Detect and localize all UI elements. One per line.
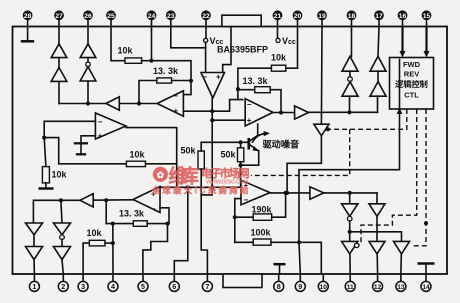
- node L1 feedback tap: [137, 101, 141, 105]
- svg-text:10: 10: [320, 284, 328, 291]
- wire A1 feedback staircase: [44, 138, 126, 164]
- svg-text:12: 12: [374, 284, 382, 291]
- wire 10k to pin24 node: [142, 60, 152, 62]
- node dashed at G19: [326, 127, 330, 131]
- Vcc tap pin 21: [276, 27, 296, 47]
- buffer B0 (drives pin26/27 chains): [106, 97, 119, 110]
- svg-text:3: 3: [81, 282, 85, 291]
- inverter chain pin 2: [54, 223, 71, 274]
- pin 24: [147, 10, 157, 26]
- svg-text:16: 16: [399, 13, 407, 20]
- arrow pin 15 into box: [424, 27, 430, 58]
- jumper rectangle top between pin 22 and 21: [222, 15, 261, 26]
- wire down to minus stub: [183, 81, 191, 95]
- svg-text:6: 6: [172, 282, 176, 291]
- resistor 10k (pin25 input): [118, 46, 142, 64]
- node U1 out / D2 plus: [210, 118, 214, 122]
- node on dashed line: [424, 221, 428, 225]
- resistor 10k (pin 3): [87, 228, 106, 246]
- resistor 100k: [251, 228, 272, 246]
- pin 22: [201, 10, 211, 26]
- inverter chain pin 18: [342, 27, 358, 113]
- wire pin 6 riser: [174, 187, 188, 274]
- node 13.3k feedback right: [189, 79, 193, 83]
- wire 190k left: [235, 216, 253, 218]
- wire 13.3k right end: [172, 80, 191, 82]
- svg-text:+: +: [174, 107, 179, 116]
- jumper rectangle bottom between pin 7 and 8: [223, 274, 262, 288]
- svg-text:✿: ✿: [157, 170, 165, 180]
- ground pin 14: [418, 264, 435, 275]
- buffer D (points left): [80, 194, 93, 207]
- arrowhead into box bottom: [397, 108, 403, 114]
- wire pin 4 riser: [112, 224, 114, 274]
- ground under 10k: [38, 183, 53, 189]
- svg-text:10k: 10k: [130, 150, 146, 160]
- arrow pin 16 into box: [400, 27, 406, 58]
- wire pin 19 riser: [320, 27, 323, 125]
- pin 18: [347, 10, 357, 26]
- wire 13.3k right to C minus: [147, 223, 167, 225]
- wire A1 output: [126, 128, 177, 164]
- node H1 mid tap: [348, 230, 352, 234]
- pin 27: [54, 10, 64, 26]
- wire chains to buffer: [59, 103, 106, 105]
- svg-text:13: 13: [397, 284, 405, 291]
- wire L1 plus to main node: [183, 110, 212, 112]
- pin 16: [398, 10, 408, 26]
- op-amp E: [241, 180, 270, 205]
- wire F0 output to driver chains: [309, 111, 378, 113]
- pin 1: [29, 274, 39, 291]
- resistor 13.3k (D2 feedback): [243, 76, 271, 93]
- node pin 9 tie: [297, 240, 301, 244]
- svg-text:11: 11: [347, 284, 354, 291]
- svg-text:28: 28: [24, 13, 32, 20]
- svg-text:驱动噪音: 驱动噪音: [263, 139, 300, 150]
- wire H3 node to H5: [350, 232, 402, 242]
- svg-text:100k: 100k: [251, 228, 272, 238]
- transistor Q1: [249, 124, 259, 165]
- svg-text:27: 27: [55, 13, 63, 20]
- wire 190k right to E output: [272, 193, 286, 217]
- pin 23: [166, 10, 176, 26]
- pin 2: [58, 274, 68, 291]
- pin 15: [422, 10, 432, 26]
- resistor 50k right: [221, 148, 244, 162]
- wire 10k left to feedback node: [238, 68, 272, 89]
- wire Vcc to U1 minus: [205, 43, 207, 73]
- wire node to L1 minus input: [152, 61, 192, 81]
- buffer chain pin 27: [51, 27, 67, 104]
- node A1 minus: [42, 136, 46, 140]
- pin 4: [108, 274, 118, 291]
- svg-text:19: 19: [318, 13, 326, 20]
- resistor 10k (to pin 20): [271, 53, 287, 72]
- svg-text:10k: 10k: [52, 170, 68, 180]
- svg-text:CTL: CTL: [404, 91, 419, 100]
- wire U1 plus riser to top jumper: [223, 27, 231, 73]
- svg-text:20: 20: [294, 13, 302, 20]
- ground under pin 28: [21, 27, 34, 42]
- svg-text:26: 26: [84, 13, 92, 20]
- wire 50k right top: [240, 142, 242, 148]
- svg-text:WWW.DZSC.COM: WWW.DZSC.COM: [206, 180, 248, 186]
- wire pin 5 staircase: [143, 224, 168, 274]
- pin 13: [396, 274, 406, 291]
- wire node to 10k: [44, 138, 46, 167]
- wire 50k left bottom: [200, 169, 202, 195]
- op-amp C (points left): [133, 187, 160, 214]
- svg-text:−: −: [98, 118, 103, 127]
- resistor 13.3k (L1 feedback): [153, 66, 179, 83]
- wire feedback line: [106, 223, 133, 225]
- dashed control to G19: [328, 109, 407, 129]
- wire node down to minus line: [237, 89, 239, 100]
- ground pin 8: [274, 264, 286, 274]
- wire C output down to feedback: [105, 200, 107, 223]
- wire 50k left top: [200, 142, 202, 151]
- pin 20: [293, 10, 303, 26]
- ground cap at A1 plus: [74, 136, 96, 155]
- pin 11: [345, 274, 355, 291]
- wire A1 minus: [44, 121, 95, 137]
- wire 10k right to pin 20: [286, 27, 298, 69]
- buffer F: [310, 187, 324, 200]
- buffer F0: [295, 106, 309, 119]
- svg-text:13. 3k: 13. 3k: [153, 66, 179, 76]
- node E out / 190k tap: [284, 191, 288, 195]
- wire bias line (C+ to E+): [160, 186, 241, 188]
- svg-text:BA6395BFP: BA6395BFP: [217, 45, 268, 55]
- pin 25: [106, 10, 116, 26]
- driver H5 (pin 13): [394, 241, 410, 274]
- dashed control to H5: [411, 109, 426, 246]
- wire emitter tie: [241, 164, 259, 166]
- node G19 tie: [285, 191, 289, 195]
- svg-text:25: 25: [107, 13, 115, 20]
- wire pin 9 riser: [299, 242, 300, 274]
- pin 14: [421, 274, 431, 291]
- svg-text:50k: 50k: [221, 150, 237, 160]
- svg-text:−: −: [174, 92, 179, 101]
- svg-text:REV: REV: [404, 70, 419, 79]
- wire 100k left: [235, 241, 253, 243]
- svg-text:+: +: [98, 132, 103, 141]
- svg-text:4: 4: [111, 282, 115, 291]
- pin 10: [318, 274, 328, 291]
- svg-text:维库: 维库: [169, 165, 200, 188]
- dashed branch to op-amp E area: [251, 129, 350, 175]
- pin 9: [295, 274, 305, 291]
- node pin 4 tap: [111, 222, 115, 226]
- svg-text:14: 14: [422, 284, 430, 291]
- resistor 190k: [252, 205, 273, 221]
- pin 17: [374, 10, 384, 26]
- svg-text:24: 24: [148, 13, 156, 20]
- node D2 output feedback tap: [279, 110, 283, 114]
- svg-text:9: 9: [298, 282, 302, 291]
- pin 21: [273, 10, 283, 26]
- svg-text:22: 22: [202, 13, 210, 20]
- wire B0 input from op-amp L1 output: [119, 103, 157, 105]
- wire 50k top rail: [201, 141, 248, 143]
- wire 13.3k right down to D2 output: [270, 90, 281, 113]
- svg-text:190k: 190k: [252, 205, 273, 215]
- pin 7: [202, 274, 212, 291]
- op-amp D2: [245, 99, 273, 126]
- wire 13.3k left: [238, 89, 255, 91]
- node U1 out / L1 plus: [210, 109, 214, 113]
- wire C output: [80, 199, 133, 202]
- resistor 10k vertical: [42, 167, 67, 183]
- pin 28: [23, 10, 33, 26]
- op-amp A1: [95, 113, 126, 141]
- svg-text:−: −: [203, 73, 208, 82]
- svg-text:17: 17: [375, 13, 383, 20]
- annotation arrow drive noise: [253, 131, 271, 142]
- resistor 13.3k C feedback: [119, 209, 147, 227]
- op-amp U1 (points down): [201, 73, 225, 99]
- node pin24/10k junction: [149, 59, 153, 63]
- inverter chain H1/H3 (pin 11): [342, 193, 359, 274]
- svg-text:21: 21: [274, 13, 282, 20]
- buffer chain pin 17: [370, 27, 386, 113]
- svg-text:13. 3k: 13. 3k: [243, 76, 269, 86]
- resistor 50k left: [181, 146, 205, 170]
- wire 13.3k left end to output node: [139, 81, 157, 104]
- wire 10k to A1 output riser: [146, 164, 177, 188]
- wire pin 3 to 10k: [83, 243, 89, 274]
- wire G19 output to E output node: [287, 136, 321, 193]
- pin 6: [169, 274, 179, 291]
- pin 5: [138, 274, 148, 291]
- svg-text:18: 18: [348, 13, 356, 20]
- wire 100k right to pins 9/10: [271, 242, 321, 274]
- svg-text:−: −: [151, 205, 156, 214]
- wire staircase to D2 minus: [212, 100, 243, 112]
- svg-text:1: 1: [32, 282, 36, 291]
- svg-text:5: 5: [141, 282, 145, 291]
- buffer G19 (points down): [314, 124, 329, 136]
- svg-text:+: +: [247, 116, 252, 125]
- inverter chain pin 26: [80, 27, 96, 104]
- pin 3: [78, 274, 88, 291]
- node pin3 10k right: [111, 241, 115, 245]
- wire pin9 node to logic box (arrow up): [299, 60, 400, 243]
- pin 12: [373, 274, 383, 291]
- svg-text:FWD: FWD: [403, 60, 421, 69]
- wire bias to pin 7: [201, 187, 212, 274]
- svg-text:全球最大IC采购网站: 全球最大IC采购网站: [151, 185, 248, 195]
- wire D2 plus input: [212, 119, 245, 121]
- pin 19: [317, 10, 327, 26]
- wire pin 24 stub: [151, 27, 153, 61]
- node junction chains: [86, 101, 90, 105]
- svg-text:8: 8: [277, 282, 281, 291]
- buffer chain H2/H4 (pin 12): [369, 193, 385, 274]
- svg-text:Vcc: Vcc: [282, 36, 296, 46]
- wire D2 output: [273, 112, 295, 114]
- resistor 10k A1 feedback: [126, 150, 145, 167]
- wire chain pin2 riser: [61, 200, 62, 223]
- wire pin 25 to 10k: [111, 27, 125, 61]
- wire 10k right to pin4 riser: [105, 242, 113, 244]
- wire F output to driver chains: [324, 192, 377, 194]
- svg-text:50k: 50k: [181, 146, 197, 156]
- pin 8: [274, 274, 284, 291]
- svg-text:7: 7: [205, 282, 209, 291]
- node bias line / U1 output: [210, 185, 214, 189]
- svg-text:10k: 10k: [87, 228, 103, 238]
- wire 50k right bottom to bias: [240, 162, 242, 188]
- watermark: [151, 165, 250, 196]
- svg-text:−: −: [247, 100, 252, 109]
- svg-text:13. 3k: 13. 3k: [119, 209, 145, 219]
- node chain18 tap: [347, 110, 351, 114]
- pin 26: [83, 10, 93, 26]
- svg-text:10k: 10k: [271, 53, 287, 63]
- node H1 tap: [348, 191, 352, 195]
- node 50k right top: [239, 140, 243, 144]
- wire E output: [270, 192, 310, 194]
- inverter chain pin 1: [26, 223, 43, 274]
- wire D output to chains: [33, 200, 80, 223]
- svg-text:2: 2: [61, 282, 65, 291]
- op-amp L1: [157, 91, 183, 116]
- wire C minus stub: [160, 208, 169, 224]
- svg-text:电子市场网: 电子市场网: [201, 166, 250, 180]
- node chain pin2 tap: [59, 198, 63, 202]
- wire E minus stub: [235, 199, 241, 243]
- node C output tap: [104, 198, 108, 202]
- wire pin 23 jog to U1: [171, 27, 206, 48]
- svg-text:10k: 10k: [118, 46, 134, 56]
- dashed control to H3 bubble: [359, 109, 417, 245]
- svg-text:−: −: [244, 196, 249, 205]
- svg-text:15: 15: [423, 13, 431, 20]
- svg-text:23: 23: [167, 13, 175, 20]
- wire U1 output main vertical: [211, 98, 213, 187]
- Vcc tap pin 22: [204, 27, 224, 47]
- svg-text:+: +: [216, 73, 221, 82]
- node D2 feedback: [236, 87, 240, 91]
- node emitter tie: [239, 163, 243, 167]
- node pin 5 tap: [165, 222, 169, 226]
- logic control box FWD REV CTL: [390, 58, 434, 110]
- IC package border: [13, 27, 448, 275]
- node pin 6 tap: [186, 185, 190, 189]
- node 190k left: [233, 215, 237, 219]
